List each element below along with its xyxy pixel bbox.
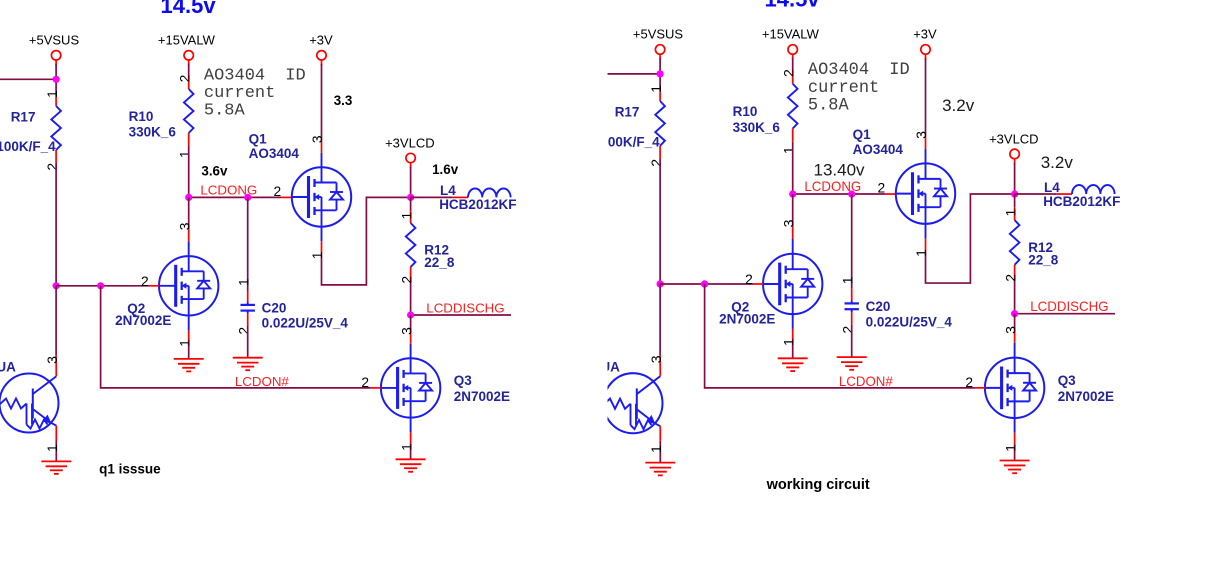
- left circuit: [0, 0, 516, 474]
- svg-text:3.2v: 3.2v: [1041, 153, 1074, 172]
- svg-text:3.3: 3.3: [334, 93, 353, 108]
- svg-text:working circuit: working circuit: [766, 477, 870, 493]
- svg-text:13.40v: 13.40v: [814, 161, 866, 180]
- right circuit: [600, 0, 1120, 475]
- svg-text:3.2v: 3.2v: [942, 96, 975, 115]
- svg-text:q1 isssue: q1 isssue: [99, 461, 161, 476]
- svg-text:1.6v: 1.6v: [432, 162, 459, 177]
- svg-text:3.6v: 3.6v: [201, 163, 228, 178]
